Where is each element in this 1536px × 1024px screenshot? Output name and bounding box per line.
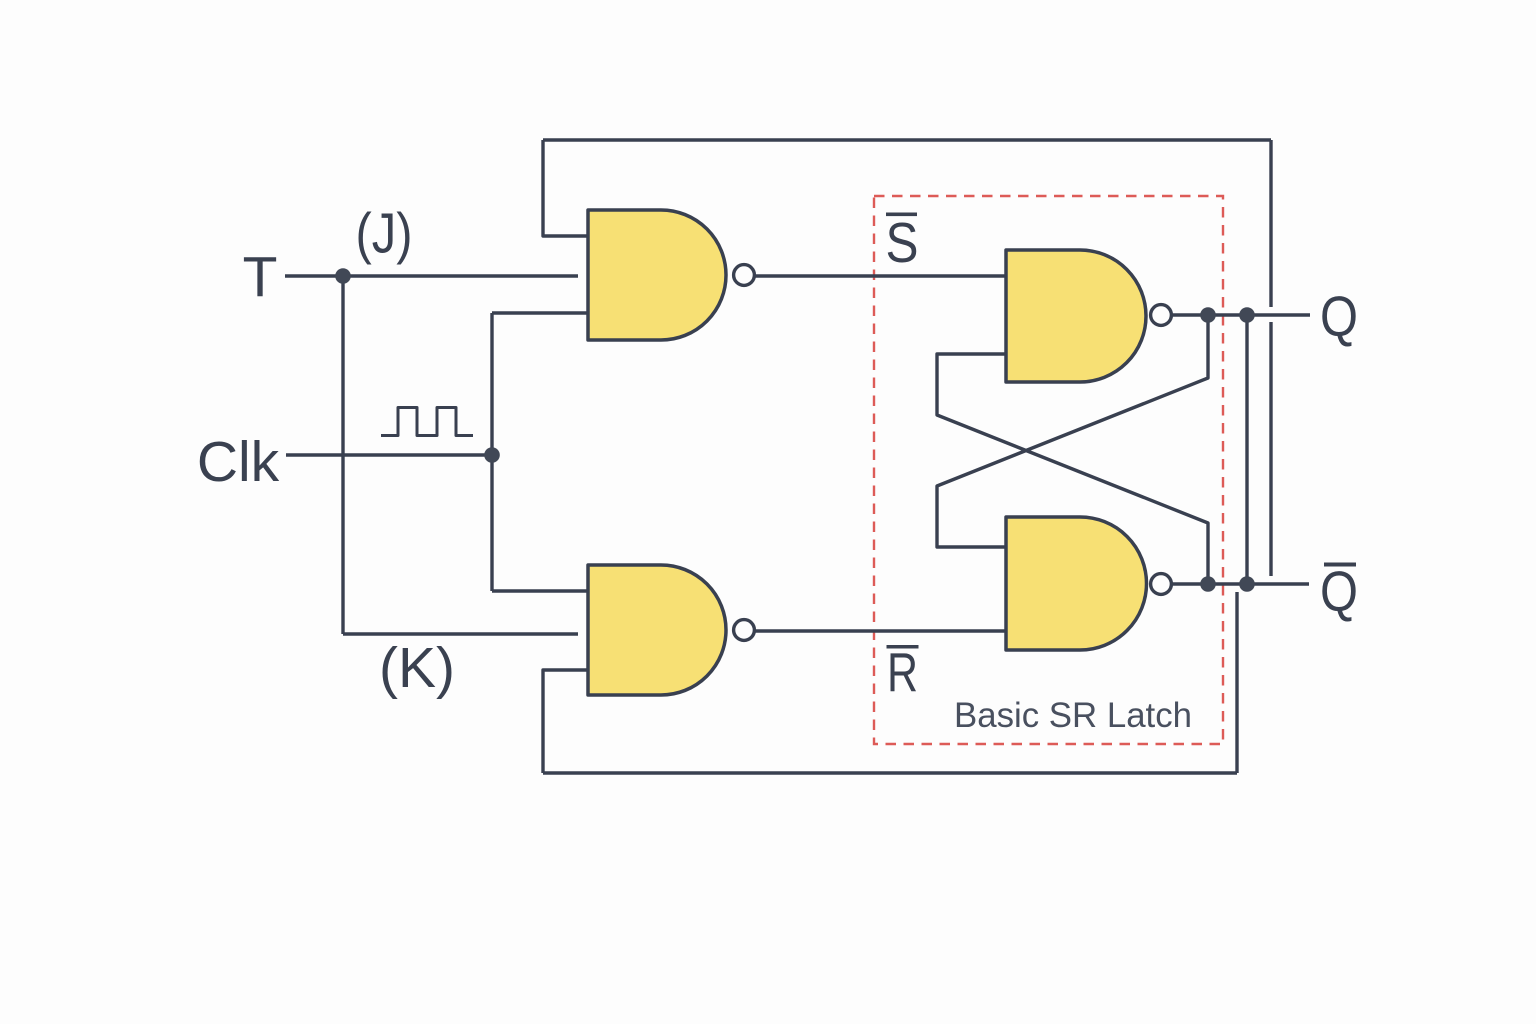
wire feedback top right vertical (above Q line) [1269, 140, 1272, 307]
NAND gate U4 (latch bottom) [1006, 517, 1147, 650]
wire Clk to gate U2 input [492, 589, 588, 592]
svg-text:(J): (J) [356, 202, 413, 266]
clock pulse symbol [381, 408, 473, 436]
wire feedback top right vertical (below Q line) [1269, 322, 1272, 576]
wire Clk vertical down to gate U2 [490, 455, 493, 591]
bubble U3 [1151, 305, 1172, 326]
NAND gate U1 (J input gate) [588, 210, 726, 340]
wire feedback top: U1 input stub [543, 140, 588, 236]
wire T vertical to K branch [341, 276, 344, 634]
junction dot Qbar node 1 [1200, 576, 1216, 592]
wire node S: U1 output to U3 input [754, 274, 1006, 277]
wire K branch horizontal [343, 632, 578, 635]
junction dot Qbar node 2 [1239, 576, 1255, 592]
bubble U1 [734, 265, 755, 286]
NAND gate U2 (K input gate) [588, 565, 726, 695]
svg-text:R: R [887, 641, 918, 703]
junction dot Q node 1 [1200, 307, 1216, 323]
overbar of Qbar [1324, 563, 1356, 567]
wire Q output line [1170, 313, 1310, 316]
wire Clk vertical up to gate U1 [490, 313, 493, 455]
svg-text:S: S [886, 211, 919, 275]
svg-text:Q: Q [1320, 560, 1358, 624]
bubble U2 [734, 620, 755, 641]
wire Clk to gate U1 input [492, 311, 588, 314]
wire Q to Qbar vertical link [1245, 315, 1248, 584]
wire Clk horizontal [286, 453, 492, 456]
wire feedback bottom right vertical [1235, 592, 1238, 773]
svg-text:Clk: Clk [197, 430, 280, 494]
svg-text:Q: Q [1320, 285, 1358, 349]
bubble U4 [1151, 574, 1172, 595]
SR latch boundary box [874, 196, 1223, 744]
junction dot Q node 2 [1239, 307, 1255, 323]
svg-text:T: T [243, 245, 278, 309]
wire cross-couple Qbar to U3 input [937, 354, 1208, 584]
svg-text:Basic SR Latch: Basic SR Latch [954, 696, 1192, 735]
wire node R: U2 output to U4 input [754, 629, 1006, 632]
junction dot T node [335, 268, 351, 284]
wire feedback bottom horizontal [543, 771, 1237, 774]
wire feedback bottom: U2 input stub [543, 670, 588, 773]
overbar of R [887, 645, 919, 649]
wire T input horizontal [285, 274, 578, 277]
junction dot Clk node [484, 447, 500, 463]
overbar of S [886, 213, 917, 217]
wire feedback top horizontal [543, 138, 1271, 141]
NAND gate U3 (latch top) [1006, 250, 1146, 382]
svg-text:(K): (K) [379, 636, 455, 700]
wire Qbar output line [1170, 582, 1309, 585]
wire cross-couple Q to U4 input [937, 315, 1208, 547]
